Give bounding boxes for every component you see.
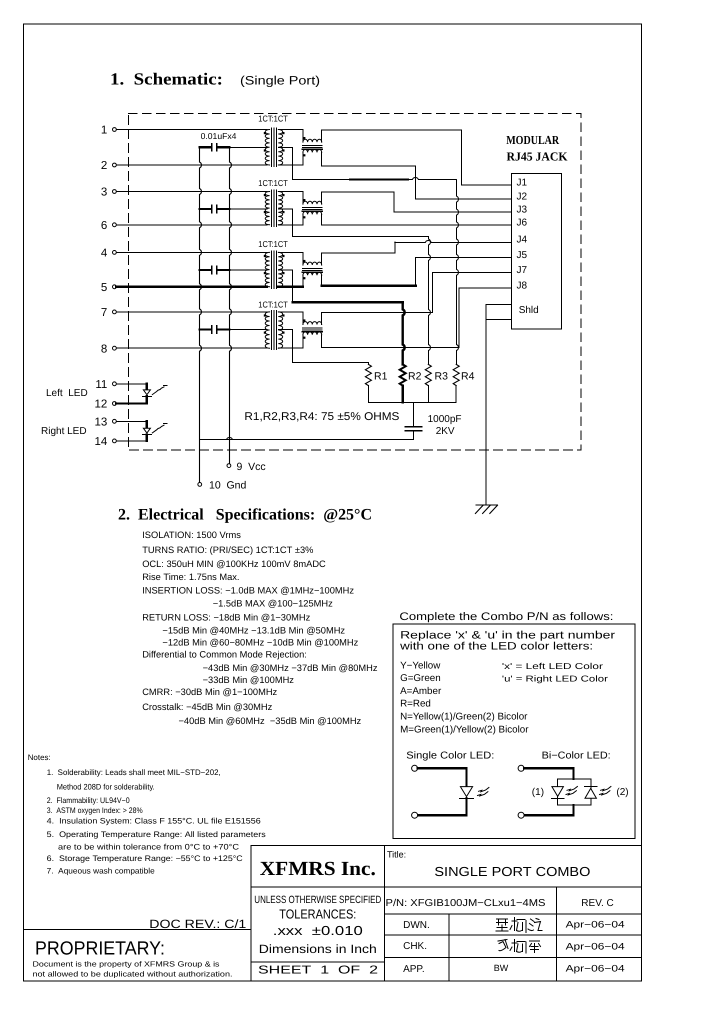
wire pin 3 [116,191,266,193]
transformer T3 core [271,251,273,288]
svg-text:SINGLE PORT COMBO: SINGLE PORT COMBO [434,864,590,879]
wire to J5 [416,256,512,258]
single color LED drawing [412,765,418,771]
svg-text:4. Insulation System: Class F: 4. Insulation System: Class F 155°C. UL … [47,817,262,826]
LED D1 actuation arrow [152,387,164,395]
wire T1 secondary center tap [278,146,292,148]
choke L4 bottom coil [302,335,304,348]
svg-text:R1: R1 [374,371,388,383]
svg-text:Crosstalk: −45dB Min @30MHz: Crosstalk: −45dB Min @30MHz [142,702,272,712]
wire T2 secondary bottom to choke L2 [278,224,303,226]
transformer T2 primary winding [265,192,269,225]
svg-text:Apr−06−04: Apr−06−04 [566,964,625,975]
pin 14 terminal [113,439,117,443]
svg-text:13: 13 [95,416,108,428]
capacitor C5 1000pF 2KV [413,402,415,426]
svg-text:PROPRIETARY:: PROPRIETARY: [35,938,165,959]
pin 2 terminal [113,163,117,167]
wire choke L4 bottom toward J8 [322,347,459,349]
svg-text:UNLESS OTHERWISE SPECIFIED: UNLESS OTHERWISE SPECIFIED [254,894,381,906]
svg-text:1CT:1CT: 1CT:1CT [258,299,288,309]
svg-text:Document is the property of XF: Document is the property of XFMRS Group … [33,960,220,969]
wire choke L3 bottom toward J5 (bold) [322,285,416,287]
svg-text:(2): (2) [616,787,628,798]
pin 5 terminal [113,285,117,289]
pin 3 terminal [113,190,117,194]
svg-text:4: 4 [101,248,108,260]
svg-text:N=Yellow(1)/Green(2) Bicolor: N=Yellow(1)/Green(2) Bicolor [400,712,528,723]
capacitor C2 0.01uF [200,208,212,210]
choke L2 core [303,207,323,209]
svg-text:2KV: 2KV [436,426,455,437]
wire choke L1 top to J1 riser [322,129,462,131]
wire to J7 [432,271,511,273]
wire T2 center tap to R3 [293,236,429,238]
pin 10 Gnd terminal [198,483,202,487]
svg-text:−1.5dB MAX @100−125MHz: −1.5dB MAX @100−125MHz [213,599,333,609]
svg-text:(1): (1) [532,787,544,798]
svg-text:CHK.: CHK. [403,941,427,952]
svg-text:Y−Yellow: Y−Yellow [400,661,441,672]
wire R2 riser (bold) [403,302,405,364]
svg-text:R=Red: R=Red [400,698,431,709]
svg-text:Shld: Shld [519,305,539,316]
svg-text:14: 14 [95,436,108,448]
svg-text:RETURN LOSS: −18dB Min @1−30MH: RETURN LOSS: −18dB Min @1−30MHz [142,613,310,623]
wire T4 secondary top to choke L4 [278,311,303,313]
svg-text:M=Green(1)/Yellow(2) Bicolor: M=Green(1)/Yellow(2) Bicolor [400,724,529,735]
svg-text:J8: J8 [517,281,528,292]
svg-text:−12dB Min @60−80MHz −10dB Min: −12dB Min @60−80MHz −10dB Min @100MHz [162,638,358,648]
combo LED color box [393,624,635,838]
svg-text:Rise Time: 1.75ns Max.: Rise Time: 1.75ns Max. [142,572,239,582]
CHK signature (Chinese) [498,940,508,951]
svg-text:Dimensions in Inch: Dimensions in Inch [259,942,377,956]
wire pin 11 [116,383,147,385]
svg-text:Apr−06−04: Apr−06−04 [566,942,625,953]
svg-text:'u' = Right LED Color: 'u' = Right LED Color [502,674,608,684]
transformer T4 polarity dots [264,314,266,316]
wire shield to chassis ground [485,304,487,505]
wire pin 13 [116,420,147,422]
svg-text:DWN.: DWN. [403,920,430,931]
svg-text:OCL: 350uH MIN @100KHz 100mV 8: OCL: 350uH MIN @100KHz 100mV 8mADC [142,559,326,569]
svg-text:12: 12 [95,399,108,411]
transformer T4 secondary winding [278,312,282,348]
title block frame [251,844,641,846]
choke L1 polarity dots [303,137,305,139]
svg-text:with one of the LED color lett: with one of the LED color letters: [399,640,593,652]
svg-text:1CT:1CT: 1CT:1CT [258,239,288,249]
svg-text:Single Color LED:: Single Color LED: [406,750,494,761]
transformer T3 secondary winding [278,252,282,286]
capacitor C1 0.01uF [200,146,212,148]
pin 11 terminal [113,382,117,386]
wire C4 to T4 primary center tap [230,328,268,330]
transformer T3 polarity dots [264,255,266,257]
svg-text:6. Storage Temperature Range:: 6. Storage Temperature Range: −55°C to +… [47,854,243,863]
transformer T4 core [271,310,273,349]
svg-text:REV. C: REV. C [581,898,613,909]
transformer T1 core [271,128,273,167]
svg-text:APP.: APP. [403,964,425,975]
pin 9 Vcc terminal [227,464,231,468]
choke L2 polarity dots [303,199,305,201]
wire T3 center tap to R2 (bold) [293,301,403,303]
wire J2 riser [414,166,416,199]
jack shield stubs [486,303,511,305]
svg-text:R4: R4 [461,371,475,383]
wire R4 riser [457,180,459,365]
pin 12 terminal [113,402,117,406]
wire to J2 [415,198,511,200]
wire to J3 [394,211,511,213]
svg-text:ISOLATION: 1500 Vrms: ISOLATION: 1500 Vrms [142,530,241,540]
svg-text:Complete the Combo P/N as foll: Complete the Combo P/N as follows: [399,611,613,623]
wire pin 8 [116,347,266,349]
svg-text:J1: J1 [517,178,528,189]
wire pin 2 [116,164,266,166]
svg-text:3: 3 [101,187,107,199]
wire pin 7 [116,311,266,313]
choke L3 polarity dots [303,260,305,262]
wire to J1 [462,184,512,186]
pin 13 terminal [113,419,117,423]
pin 4 terminal [113,251,117,255]
pin 7 terminal [113,310,117,314]
svg-text:Right LED: Right LED [41,426,87,437]
wire pin 6 [116,224,266,226]
wire T1 secondary bottom to choke L1 [278,164,303,166]
svg-text:2. Flammability: UL94V−0: 2. Flammability: UL94V−0 [47,796,130,805]
RJ45 jack U1 body [512,174,562,330]
DWN signature (Chinese) [496,919,508,931]
svg-text:J5: J5 [517,250,528,261]
svg-text:SHEET 1 OF 2: SHEET 1 OF 2 [258,965,378,977]
svg-text:TOLERANCES:: TOLERANCES: [279,906,356,921]
svg-text:3. ASTM oxygen Index: > 28%: 3. ASTM oxygen Index: > 28% [47,806,143,815]
wire J4 riser [394,242,396,253]
svg-text:J2: J2 [517,192,528,203]
choke L3 bottom coil [302,275,304,287]
wire T4 secondary center tap [278,328,292,330]
wire J5 riser [415,257,417,285]
svg-text:R1,R2,R3,R4: 75 ±5% OHMS: R1,R2,R3,R4: 75 ±5% OHMS [244,411,399,423]
svg-text:1: 1 [101,125,107,137]
svg-text:5. Operating Temperature Rang: 5. Operating Temperature Range: All list… [47,830,266,839]
schematic boundary dashed box [128,114,581,451]
pin 1 terminal [113,128,117,132]
svg-text:1CT:1CT: 1CT:1CT [258,178,288,188]
resistor bottom bus [368,401,456,403]
choke L3 core [303,268,323,270]
transformer T2 polarity dots [264,194,266,196]
transformer T4 primary winding [265,312,269,348]
wire J7 riser [431,272,433,312]
wire choke L3 top toward J4 [322,252,395,254]
wire C1 to T1 primary center tap [230,146,268,148]
svg-text:Left LED: Left LED [46,388,88,399]
wire J1 riser [461,130,463,185]
svg-text:0.01uFx4: 0.01uFx4 [201,131,237,141]
transformer T1 secondary winding [278,130,282,166]
chassis ground symbol [476,504,498,506]
svg-text:10 Gnd: 10 Gnd [209,480,247,492]
LED D2 actuation arrow [152,425,164,433]
wire pin 4 [116,251,266,253]
wire T2 secondary top to choke L2 [278,191,303,193]
svg-text:Method 208D for solderability.: Method 208D for solderability. [57,783,155,792]
resistor R1 [365,364,371,385]
svg-text:9 Vcc: 9 Vcc [237,461,266,473]
svg-text:not allowed to be duplicated w: not allowed to be duplicated without aut… [33,969,233,978]
resistor R4 [453,364,459,385]
svg-text:R3: R3 [435,371,449,383]
svg-text:.xxx ±0.010: .xxx ±0.010 [273,923,363,938]
svg-text:Differential to Common Mode Re: Differential to Common Mode Rejection: [142,650,307,660]
svg-text:Title:: Title: [387,850,406,860]
wire R3 riser [429,237,431,365]
transformer T2 core [271,190,273,226]
svg-text:BW: BW [494,963,509,973]
choke L4 top coil [302,312,304,325]
pin 8 terminal [113,346,117,350]
choke L2 bottom coil [302,214,304,224]
wire J3 riser [393,192,395,212]
svg-text:1. Schematic:: 1. Schematic: [110,70,223,89]
svg-text:MODULAR: MODULAR [506,133,559,147]
wire pin 12 [116,402,147,404]
capacitor C3 0.01uF [200,269,212,271]
choke L1 bottom coil [302,152,304,165]
wire T3 secondary bottom to choke L3 [278,286,303,288]
choke L4 core [303,327,323,329]
svg-text:Bi−Color LED:: Bi−Color LED: [542,750,611,761]
svg-text:Apr−06−04: Apr−06−04 [566,920,625,931]
Vcc bus vertical [230,147,232,463]
wire T3 secondary top to choke L3 [278,251,303,253]
svg-text:1. Solderability: Leads shall: 1. Solderability: Leads shall meet MIL−S… [47,768,221,777]
svg-text:7. Aqueous wash compatible: 7. Aqueous wash compatible [47,867,156,876]
svg-text:Notes:: Notes: [28,753,51,762]
choke L4 polarity dots [303,319,305,321]
svg-text:1CT:1CT: 1CT:1CT [258,114,288,124]
wire T1 center tap to R4 [293,178,457,180]
wire to J8 [459,287,512,289]
svg-text:6: 6 [101,220,107,232]
svg-text:8: 8 [101,343,107,355]
wire choke L1 bottom to J2 riser [322,165,416,167]
svg-text:J3: J3 [517,205,528,216]
transformer T3 primary winding [265,252,269,286]
svg-text:2. Electrical Specification: 2. Electrical Specifications: @25°C [118,507,372,524]
svg-text:7: 7 [101,307,107,319]
transformer T1 primary winding [265,130,269,166]
wire choke L4 top toward J7 [322,311,433,313]
resistor R3 [425,364,431,385]
wire T4 secondary bottom to choke L4 [278,347,303,349]
svg-text:11: 11 [95,379,107,391]
proprietary box [23,930,251,982]
wire pin 5 [116,286,266,288]
choke L1 core [303,145,323,147]
svg-text:(Single Port): (Single Port) [240,74,320,88]
wire pin 14 [116,440,147,442]
svg-text:RJ45 JACK: RJ45 JACK [507,149,568,163]
bi-color LED drawing [518,765,524,771]
capacitor C4 0.01uF [200,328,212,330]
wire C3 to T3 primary center tap [230,269,268,271]
wire choke L2 bottom to J6 [322,224,512,226]
resistor R2 [400,364,406,385]
svg-text:R2: R2 [408,371,422,383]
svg-text:A=Amber: A=Amber [400,686,442,697]
choke L1 top coil [302,130,304,143]
svg-text:J6: J6 [517,217,528,228]
svg-text:5: 5 [101,282,107,294]
LED D1 (Left LED) [146,384,148,390]
transformer T1 polarity dots [264,132,266,134]
svg-text:INSERTION LOSS: −1.0dB MAX @1M: INSERTION LOSS: −1.0dB MAX @1MHz−100MHz [142,585,354,595]
svg-text:2: 2 [101,160,107,172]
svg-text:−33dB Min @100MHz: −33dB Min @100MHz [203,675,295,685]
wire T3 secondary center tap [278,269,292,271]
wire to J4 [395,241,512,243]
wire T1 secondary top to choke L1 [278,129,303,131]
svg-text:1000pF: 1000pF [428,414,462,425]
choke L2 top coil [302,192,304,205]
wire T4 center tap to R1 [293,361,369,363]
svg-text:XFMRS Inc.: XFMRS Inc. [260,858,376,880]
wire pin 1 [116,129,266,131]
wire C5 to Gnd bus [200,438,414,440]
transformer T2 secondary winding [278,192,282,225]
svg-text:CMRR: −30dB Min @1−100MHz: CMRR: −30dB Min @1−100MHz [142,687,277,697]
wire choke L2 top to J3 riser [322,191,395,193]
wire J8 riser [458,288,460,348]
Gnd bus vertical [200,147,202,482]
svg-text:−40dB Min @60MHz −35dB Min @1: −40dB Min @60MHz −35dB Min @100MHz [179,716,362,726]
svg-text:−43dB Min @30MHz −37dB Min @80: −43dB Min @30MHz −37dB Min @80MHz [203,663,378,673]
svg-text:'x' = Left LED Color: 'x' = Left LED Color [502,661,603,671]
svg-text:J4: J4 [517,235,528,246]
svg-text:G=Green: G=Green [400,673,441,684]
svg-text:TURNS RATIO: (PRI/SEC) 1CT:1CT: TURNS RATIO: (PRI/SEC) 1CT:1CT ±3% [142,545,313,555]
svg-text:J7: J7 [517,265,528,276]
LED D2 (Right LED) [146,421,148,428]
svg-text:P/N: XFGIB100JM−CLxu1−4MS: P/N: XFGIB100JM−CLxu1−4MS [386,898,546,909]
svg-text:−15dB Min @40MHz −13.1dB Min @: −15dB Min @40MHz −13.1dB Min @50MHz [162,626,345,636]
pin 6 terminal [113,223,117,227]
wire T2 secondary center tap [278,208,292,210]
choke L3 top coil [302,252,304,265]
wire C2 to T2 primary center tap [230,208,268,210]
svg-text:are to be within tolerance fro: are to be within tolerance from 0°C to +… [58,843,239,852]
